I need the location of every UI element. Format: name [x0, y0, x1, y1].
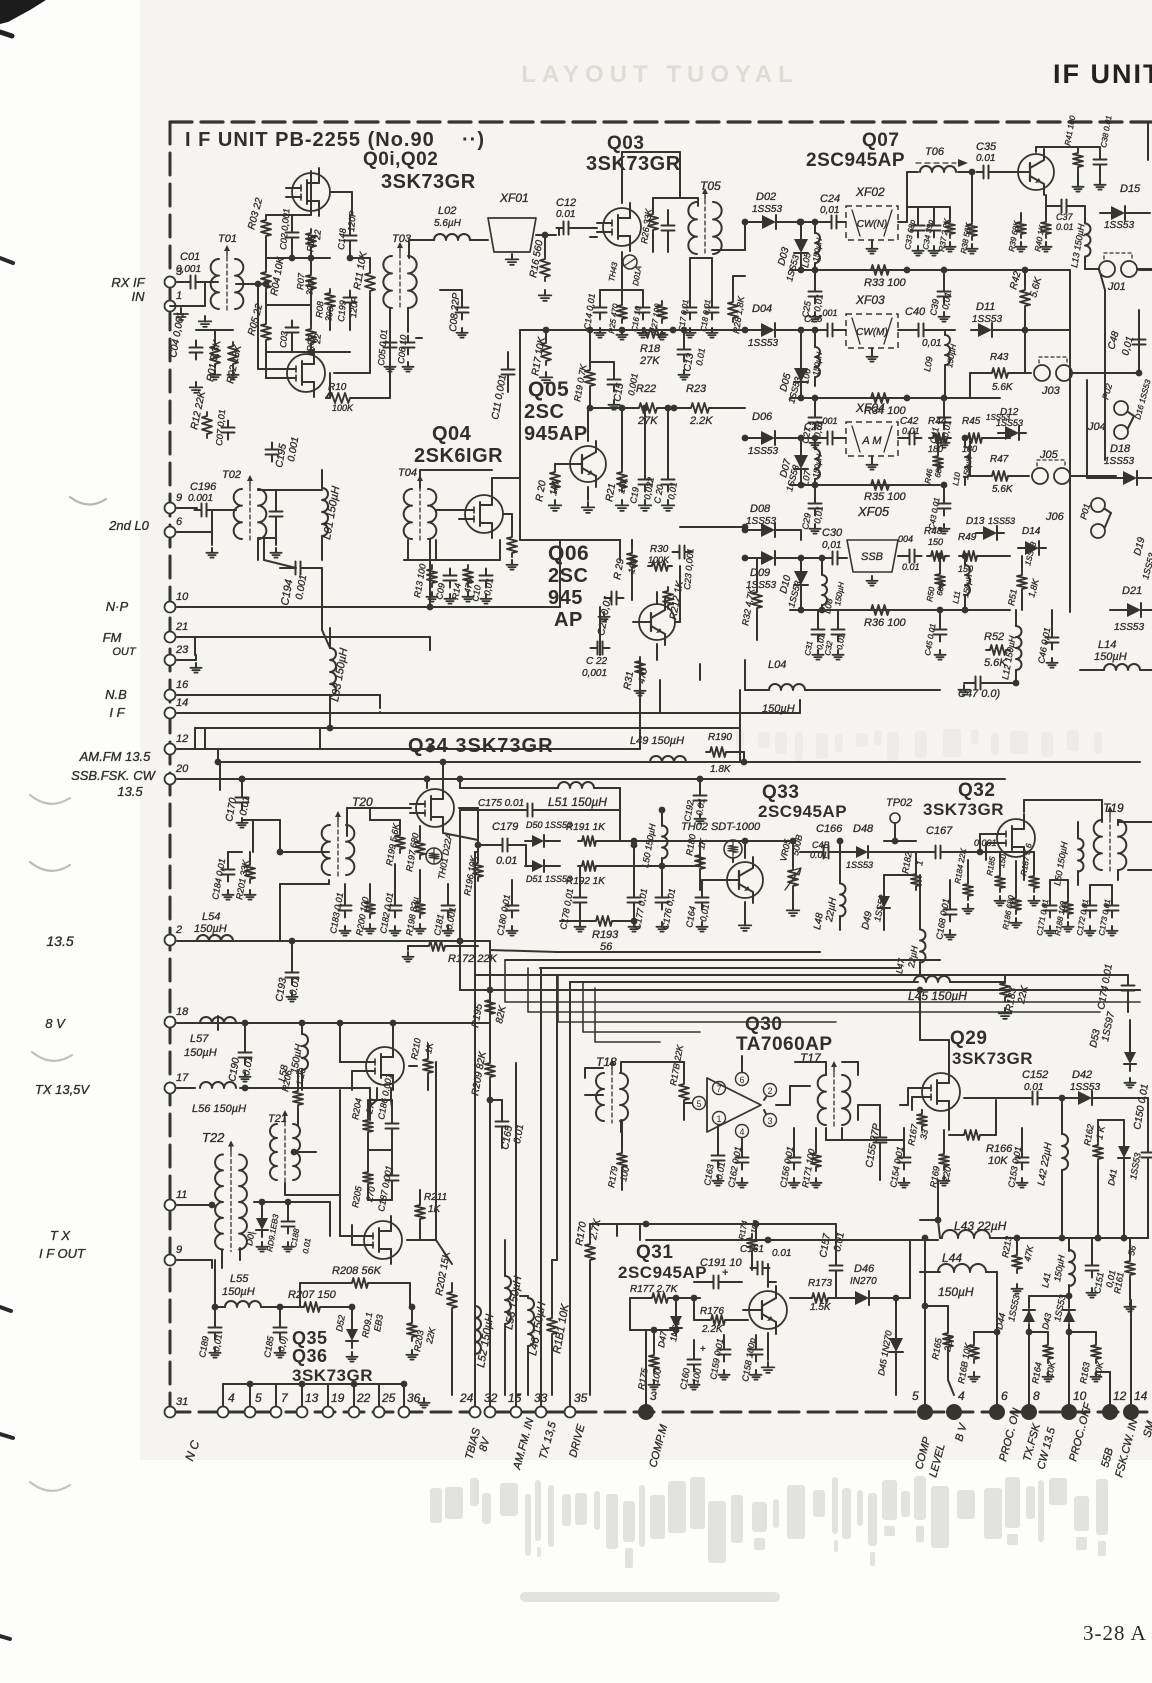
- diode D47 1N60: [670, 1316, 682, 1328]
- wire pin ground bus: [223, 1383, 404, 1385]
- inductor T06 coil: [920, 166, 956, 172]
- resistor R184 22K: [963, 880, 973, 900]
- resistor R182 1K: [911, 870, 921, 890]
- diode D07 1SS53 vertical: [794, 455, 808, 469]
- svg-text:IN: IN: [132, 289, 146, 304]
- pin 5: [245, 1407, 256, 1418]
- svg-text:1K: 1K: [428, 1204, 442, 1215]
- terminal 23: [165, 655, 176, 666]
- svg-text:TP02: TP02: [886, 797, 912, 809]
- svg-text:J06: J06: [1045, 511, 1065, 523]
- inductor L50 150uH: [662, 826, 668, 859]
- resistor R198 82: [415, 898, 425, 918]
- capacitor C2nd: [270, 511, 283, 513]
- capacitor C26 .001: [827, 324, 829, 337]
- resistor R32 4.7K: [752, 588, 762, 612]
- svg-text:12: 12: [1113, 1389, 1127, 1403]
- op-amp U Q30 TA7060AP: [707, 1078, 761, 1132]
- svg-text:17: 17: [176, 1072, 189, 1084]
- capacitor C162 0.01: [736, 1157, 749, 1159]
- svg-text:3-28 A: 3-28 A: [1083, 1621, 1147, 1645]
- connector P01: [1091, 498, 1105, 512]
- resistor R31 470: [635, 657, 645, 679]
- svg-text:D02: D02: [756, 191, 776, 203]
- transformer T05: [688, 202, 697, 254]
- resistor R210 1K: [423, 1055, 433, 1077]
- capacitor C161 0.01: [757, 1262, 759, 1275]
- svg-text:0.01: 0.01: [976, 153, 995, 164]
- diode D14: [1025, 541, 1039, 555]
- wire t20 left: [280, 851, 329, 853]
- op-amp pin 6: [736, 1073, 749, 1086]
- inductor L48 22uH: [840, 884, 846, 917]
- resistor R195 82K: [485, 996, 495, 1018]
- svg-text:C12: C12: [556, 197, 576, 209]
- resistor R162 1K: [1093, 1141, 1103, 1163]
- terminal 17 TX 13.5V: [165, 1083, 176, 1094]
- svg-text:3SK73GR: 3SK73GR: [586, 153, 681, 175]
- pin 13: [297, 1407, 308, 1418]
- pin 33: [536, 1407, 547, 1418]
- svg-text:Q35: Q35: [292, 1328, 328, 1348]
- diode D44 1SS53: [1023, 1310, 1035, 1322]
- svg-text:R173: R173: [808, 1278, 832, 1289]
- svg-text:33: 33: [918, 1129, 930, 1141]
- svg-text:R36 100: R36 100: [864, 617, 906, 629]
- inductor L41 150uH: [1069, 1250, 1075, 1286]
- capacitor C19 0.022: [639, 479, 652, 481]
- svg-text:R43: R43: [990, 352, 1009, 363]
- capacitor C195 0.001: [266, 449, 279, 451]
- punch hole shadow 4: [32, 1052, 72, 1061]
- terminal 12 AM.FM 13.5: [165, 744, 176, 755]
- terminal 20 SSB.FSK.CW 13.5: [165, 774, 176, 785]
- wire bus y398: [790, 397, 1000, 399]
- resistor R207 150: [300, 1302, 324, 1312]
- svg-text:T18: T18: [596, 1055, 617, 1069]
- diode D49 1SS53: [878, 896, 890, 908]
- svg-text:0,001: 0,001: [582, 668, 607, 679]
- inductor L56 150uH: [200, 1082, 236, 1088]
- wire bus 728: [195, 727, 740, 729]
- svg-text:150µH: 150µH: [938, 1285, 974, 1299]
- svg-text:D42: D42: [1072, 1069, 1092, 1081]
- capacitor C29 0.01: [809, 503, 822, 505]
- wire right vertical spine J column: [1104, 290, 1106, 460]
- capacitor C30 0.01: [832, 552, 834, 565]
- resistor R168 10K: [969, 1341, 979, 1363]
- resistor R21 15K: [617, 468, 627, 492]
- svg-text:1SS53: 1SS53: [746, 516, 776, 527]
- inductor L05 150uH: [815, 233, 820, 263]
- svg-text:27K: 27K: [637, 415, 658, 427]
- svg-text:R208 56K: R208 56K: [332, 1265, 382, 1277]
- op-amp pin 4: [736, 1125, 749, 1138]
- svg-text:6: 6: [739, 1075, 744, 1085]
- inductor L07 150uH: [815, 449, 820, 479]
- resistor R25 470: [617, 301, 627, 323]
- svg-text:2.2K: 2.2K: [689, 415, 713, 427]
- svg-text:0,01: 0,01: [820, 205, 839, 216]
- svg-text:R47: R47: [990, 454, 1009, 465]
- svg-text:12: 12: [176, 733, 188, 745]
- svg-text:L02: L02: [438, 205, 456, 217]
- svg-text:AP: AP: [554, 609, 583, 631]
- svg-text:C4B: C4B: [812, 840, 830, 850]
- svg-text:L51 150µH: L51 150µH: [548, 795, 607, 809]
- svg-text:D12: D12: [1000, 407, 1019, 418]
- capacitor C21 0.01: [611, 592, 613, 605]
- capacitor C43 0.01: [938, 503, 951, 505]
- svg-text:2nd L0: 2nd L0: [108, 518, 150, 533]
- svg-text:56: 56: [1126, 1245, 1138, 1257]
- svg-text:1SS53: 1SS53: [1070, 1082, 1100, 1093]
- capacitor C183 0.01: [339, 905, 352, 907]
- pin 22: [349, 1407, 360, 1418]
- svg-text:1SS53: 1SS53: [846, 860, 873, 870]
- capacitor C150 0.01: [1142, 1152, 1152, 1154]
- svg-text:22: 22: [356, 1391, 371, 1405]
- pin 4 BV: [946, 1404, 962, 1420]
- svg-text:SSB.FSK. CW: SSB.FSK. CW: [71, 768, 157, 783]
- svg-text:R48: R48: [924, 526, 943, 537]
- resistor R26 33K: [648, 210, 658, 234]
- transformer T03: [383, 256, 392, 308]
- svg-text:4: 4: [739, 1127, 744, 1137]
- svg-text:J05: J05: [1039, 449, 1059, 461]
- diode D43 1SS53: [1063, 1310, 1075, 1322]
- capacitor C154 0.01: [898, 1157, 911, 1159]
- svg-text:1.8K: 1.8K: [710, 764, 732, 775]
- svg-text:2: 2: [175, 924, 182, 936]
- capacitor C193 0.01: [286, 972, 299, 974]
- svg-text:T19: T19: [1103, 801, 1124, 815]
- svg-text:1SS53: 1SS53: [988, 516, 1015, 526]
- svg-text:C03: C03: [278, 331, 289, 348]
- svg-text:+: +: [700, 1344, 706, 1355]
- capacitor C158 100P: [750, 1349, 763, 1351]
- svg-text:IN270: IN270: [850, 1276, 877, 1287]
- svg-text:T02: T02: [222, 469, 241, 481]
- connector J01: [1099, 261, 1115, 277]
- capacitor C177 0.01: [628, 897, 641, 899]
- terminal 1: [165, 301, 176, 312]
- pin 7: [271, 1407, 282, 1418]
- ghost band bottom 2: [520, 1592, 780, 1602]
- svg-text:1SS53: 1SS53: [752, 204, 782, 215]
- capacitor C189 0.01: [209, 1327, 222, 1329]
- resistor R50 680: [935, 570, 945, 590]
- svg-text:IF UNIT: IF UNIT: [1053, 59, 1152, 89]
- resistor R161 56: [1125, 1257, 1135, 1279]
- capacitor C27 0.01: [809, 417, 822, 419]
- resistor R176 2.2K: [707, 1315, 729, 1325]
- transistor Q32 3SK73GR: [997, 819, 1035, 857]
- svg-text:R190: R190: [708, 732, 732, 743]
- resistor R36 100: [867, 605, 893, 615]
- pin 19: [323, 1407, 334, 1418]
- svg-text:D48: D48: [853, 823, 874, 835]
- svg-text:0.01: 0.01: [772, 1248, 791, 1259]
- svg-text:C167: C167: [926, 825, 953, 837]
- transformer T18: [596, 1073, 604, 1121]
- svg-text:0,001: 0,001: [176, 264, 201, 275]
- pin 24: [470, 1407, 481, 1418]
- svg-text:R207 150: R207 150: [288, 1289, 337, 1301]
- svg-text:Q07: Q07: [862, 130, 899, 151]
- svg-text:C30: C30: [822, 527, 843, 539]
- resistor R212 1K: [663, 587, 673, 609]
- wire mid fanout: [459, 810, 461, 990]
- inductor L10 150uH: [965, 447, 970, 477]
- svg-text:0.01: 0.01: [496, 855, 517, 867]
- svg-text:Q05: Q05: [528, 378, 569, 401]
- resistor R190 1.8K: [706, 747, 730, 757]
- resistor R37 2.2K: [945, 218, 955, 238]
- capacitor C08 22P: [456, 307, 469, 309]
- wire staircase fan: [505, 960, 1140, 1002]
- resistor R52 5.6K: [986, 645, 1010, 655]
- terminal 6: [165, 527, 176, 538]
- svg-text:XF05: XF05: [857, 504, 890, 519]
- capacitor C46 0.01: [1046, 637, 1059, 639]
- resistor R185 150: [995, 872, 1005, 892]
- resistor R199 5.6K: [395, 831, 405, 853]
- svg-text:2SK6IGR: 2SK6IGR: [414, 445, 503, 467]
- resistor R49 150: [959, 551, 981, 561]
- svg-text:+: +: [722, 1267, 728, 1279]
- svg-text:T21: T21: [268, 1113, 287, 1125]
- svg-text:LAYOUT TUOYAL: LAYOUT TUOYAL: [521, 61, 799, 88]
- capacitor C18 0.01: [706, 307, 719, 309]
- svg-text:TH02 SDT-1000: TH02 SDT-1000: [681, 821, 761, 833]
- svg-text:Q29: Q29: [950, 1028, 987, 1049]
- wire bus 12: [177, 748, 640, 750]
- pin 12: [1102, 1404, 1118, 1420]
- svg-text:100K: 100K: [332, 403, 354, 413]
- inductor L51 150uH: [558, 782, 594, 788]
- resistor R10 100K: [326, 393, 354, 403]
- wire q03: [590, 227, 597, 229]
- svg-text:8 V: 8 V: [45, 1016, 66, 1031]
- capacitor C176 0.01: [656, 897, 669, 899]
- svg-text:D11: D11: [976, 301, 995, 313]
- svg-text:C152: C152: [1022, 1069, 1048, 1081]
- diode D05 1SS53 vertical: [794, 368, 808, 382]
- pin 8: [1021, 1404, 1037, 1420]
- pin 6 proc on: [989, 1404, 1005, 1420]
- resistor R197 680: [415, 837, 425, 859]
- resistor R165 22K: [943, 1329, 953, 1351]
- svg-text:L55: L55: [230, 1273, 249, 1285]
- resistor R20 1M: [550, 468, 560, 492]
- capacitor C28 .001: [827, 432, 829, 445]
- svg-text:10: 10: [1073, 1389, 1087, 1403]
- svg-text:5: 5: [255, 1391, 262, 1405]
- capacitor C155 27P: [874, 1137, 887, 1139]
- capacitor C32 0.01: [832, 629, 845, 631]
- resistor R39 68K: [1016, 218, 1026, 238]
- capacitor C163 0.01: [712, 1155, 725, 1157]
- resistor R46 680: [933, 452, 943, 472]
- svg-text:6: 6: [1001, 1389, 1008, 1403]
- diode D02 1SS53: [762, 215, 776, 229]
- wire bus y485: [790, 484, 940, 486]
- scan artifact left edge marks: [0, 258, 13, 263]
- wire NB bus: [177, 694, 380, 696]
- capacitor C184 0.01: [222, 869, 235, 871]
- svg-text:TX 13,5V: TX 13,5V: [35, 1082, 91, 1097]
- resistor R186 680: [1011, 894, 1021, 914]
- svg-text:R166: R166: [986, 1143, 1013, 1155]
- capacitor C03: [286, 327, 299, 329]
- resistor R23 2.2K: [687, 403, 713, 413]
- svg-text:1: 1: [176, 290, 182, 302]
- svg-text:3: 3: [767, 1116, 772, 1126]
- wire 8V bus: [177, 1022, 490, 1024]
- diode D11 1SS53: [978, 323, 992, 337]
- diode D18 1SS53: [1123, 471, 1137, 485]
- scan artifact top-left corner: [0, 0, 46, 24]
- svg-text:D46: D46: [854, 1263, 875, 1275]
- svg-text:Q31: Q31: [636, 1242, 673, 1263]
- capacitor C47 0.01: [975, 677, 977, 690]
- resistor R05 22: [261, 320, 271, 344]
- wire bus y438: [745, 437, 760, 439]
- svg-text:R30: R30: [650, 544, 669, 555]
- svg-text:R52: R52: [984, 631, 1004, 643]
- wire left column risers: [194, 637, 196, 655]
- terminal 9 TX IF OUT: [165, 1255, 176, 1266]
- capacitor C181 0.001: [442, 905, 455, 907]
- svg-text:0,01: 0,01: [922, 338, 941, 349]
- terminal 18 8V: [165, 1017, 176, 1028]
- svg-text:SSB: SSB: [861, 551, 883, 563]
- svg-text:T05: T05: [700, 179, 721, 193]
- svg-text:XF01: XF01: [499, 191, 529, 205]
- svg-text:N·P: N·P: [106, 599, 129, 614]
- capacitor C192 0.01: [694, 795, 707, 797]
- capacitor C02 0.001: [286, 232, 299, 234]
- capacitor C20 0.01: [662, 479, 675, 481]
- inductor L14 150uH: [1104, 664, 1140, 670]
- crystal filter XF03 CW(M): [846, 314, 898, 348]
- svg-text:0.01: 0.01: [902, 562, 920, 572]
- op-amp pin 1: [713, 1112, 726, 1125]
- svg-text:2SC945AP: 2SC945AP: [806, 150, 905, 171]
- svg-text:5: 5: [696, 1099, 701, 1109]
- diode D09 1SS53: [761, 551, 775, 565]
- capacitor C180 0.01: [506, 905, 519, 907]
- svg-text:3: 3: [650, 1389, 657, 1403]
- capacitor C44 .001: [909, 550, 911, 563]
- transistor Q36 3SK73GR: [364, 1221, 402, 1259]
- svg-text:.001: .001: [820, 416, 838, 426]
- svg-text:C179: C179: [492, 821, 518, 833]
- svg-text:15: 15: [508, 1391, 522, 1405]
- capacitor C16 10: [637, 307, 650, 309]
- capacitor C179 0.01: [502, 839, 504, 852]
- svg-text:R22: R22: [636, 383, 656, 395]
- wire opamp row buses: [590, 1223, 836, 1225]
- wire q30 t17 links: [825, 1128, 827, 1140]
- pin 4: [218, 1407, 229, 1418]
- inductor L47 22uH: [920, 930, 926, 963]
- svg-text:2SC: 2SC: [548, 565, 588, 587]
- resistor R17 10K: [541, 339, 551, 365]
- svg-text:3SK73GR: 3SK73GR: [923, 800, 1004, 819]
- resistor R14 470: [463, 565, 473, 587]
- wire vertical links mid: [639, 660, 641, 749]
- resistor R208 56K: [348, 1278, 372, 1288]
- resistor R204 270: [363, 1116, 373, 1136]
- pin 3 COMP.M: [638, 1404, 654, 1420]
- svg-text:CW(N): CW(N): [857, 219, 888, 230]
- resistor R175 100: [649, 1351, 659, 1373]
- capacitor C25 0.01: [809, 291, 822, 293]
- svg-text:3SK73GR: 3SK73GR: [381, 171, 476, 193]
- transistor Q02 3SK73GR: [287, 354, 325, 392]
- svg-text:R33 100: R33 100: [864, 277, 906, 289]
- capacitor C173 0.01: [1106, 905, 1119, 907]
- thermistor TH01 D22A: [426, 848, 442, 864]
- svg-text:L49 150µH: L49 150µH: [630, 735, 684, 747]
- capacitor C187 0.001: [386, 1175, 399, 1177]
- terminal 16 N.B: [165, 690, 176, 701]
- svg-text:1SS53: 1SS53: [972, 314, 1002, 325]
- svg-text:R192 1K: R192 1K: [566, 876, 606, 887]
- svg-text:OUT: OUT: [112, 646, 137, 658]
- capacitor C178 0.01: [574, 897, 587, 899]
- resistor R06 22: [306, 229, 316, 251]
- wire q33 bus: [620, 840, 745, 842]
- wire t19 edge: [1118, 821, 1152, 823]
- capacitor C01: [190, 276, 192, 289]
- svg-text:21: 21: [175, 621, 188, 633]
- transformer T17: [818, 1075, 826, 1125]
- pin 14: [1123, 1404, 1139, 1420]
- svg-text:CW(M): CW(M): [856, 327, 888, 338]
- svg-text:150µH: 150µH: [194, 923, 227, 935]
- punch hole shadow 5: [30, 1482, 70, 1491]
- resistor R44 180: [929, 433, 951, 443]
- svg-text:5.6µH: 5.6µH: [434, 218, 462, 229]
- resistor R34 100: [867, 393, 893, 403]
- wire l03 bottom: [329, 716, 331, 728]
- terminal 9 2nd LO: [165, 503, 176, 514]
- capacitor C16x 0.01: [713, 1276, 715, 1289]
- resistor R27 100: [657, 301, 667, 323]
- inductor L06 150uH: [815, 347, 820, 377]
- svg-text:C175 0.01: C175 0.01: [478, 798, 524, 809]
- transistor Q01 3SK73GR: [292, 173, 330, 211]
- resistor R41 100: [1073, 149, 1083, 171]
- capacitor C156 0.01: [788, 1157, 801, 1159]
- svg-text:R44: R44: [928, 416, 947, 427]
- transformer T20: [322, 825, 330, 875]
- wire top entry: [937, 1180, 939, 1220]
- wire IF bus: [177, 712, 800, 714]
- resistor R01 3.3K: [210, 342, 220, 368]
- punch hole shadow 1: [70, 497, 106, 505]
- inductor L11 150uH: [965, 565, 970, 595]
- op-amp pin 7: [713, 1082, 726, 1095]
- wire t02 links: [264, 489, 322, 491]
- wire t20 block verticals: [279, 884, 281, 941]
- svg-text:AM.FM 13.5: AM.FM 13.5: [79, 749, 152, 764]
- resistor R202 15K: [447, 1288, 457, 1312]
- svg-text:T04: T04: [398, 467, 417, 479]
